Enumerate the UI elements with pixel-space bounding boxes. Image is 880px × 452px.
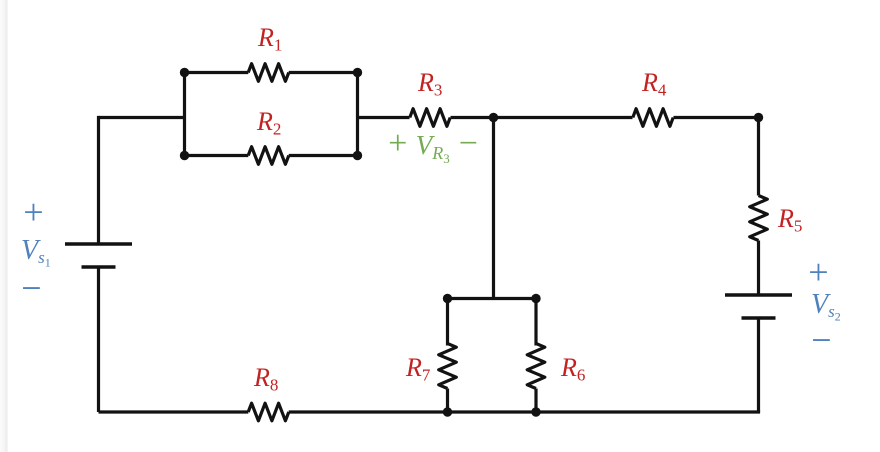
wire bottom branch right xyxy=(289,154,358,157)
resistor R4 xyxy=(633,109,673,127)
battery Vs1 positive plate xyxy=(65,242,132,246)
label R6 xyxy=(561,355,585,383)
wire bottom branch left xyxy=(185,154,249,157)
resistor R2 xyxy=(248,147,289,165)
label Vs1 minus xyxy=(19,270,43,306)
wire parallel right bar xyxy=(356,73,359,156)
wire R7-R6 top bar xyxy=(448,297,537,300)
resistor R8 xyxy=(248,403,289,421)
junction dot R6 bottom xyxy=(531,407,540,416)
resistor R7 xyxy=(439,344,457,389)
label R1 xyxy=(258,25,282,53)
wire top branch right xyxy=(289,71,358,74)
label R8 xyxy=(254,365,278,393)
wire parallel left bar xyxy=(183,73,186,156)
resistor R5 xyxy=(750,196,768,241)
junction dot parallel bottom-right xyxy=(353,151,362,160)
wire R7 upper lead xyxy=(446,299,449,346)
wire bottom rail right xyxy=(289,410,760,413)
wire left rail lower xyxy=(97,267,100,412)
wire node A to R4 xyxy=(494,116,633,119)
wire R7 lower lead xyxy=(446,389,449,413)
label Vs2 minus xyxy=(809,322,833,358)
battery Vs1 negative plate xyxy=(82,265,116,269)
label R2 xyxy=(257,109,281,137)
label R3 xyxy=(418,70,442,98)
junction dot parallel top-left xyxy=(180,68,189,77)
wire right rail lower xyxy=(757,318,760,412)
wire R6 upper lead xyxy=(534,299,537,346)
left edge shading xyxy=(0,0,8,452)
junction dot node A xyxy=(489,113,498,122)
resistor R6 xyxy=(527,344,545,389)
wire left rail upper xyxy=(97,116,100,244)
label Vs2 xyxy=(811,291,841,323)
junction dot parallel top-right xyxy=(353,68,362,77)
junction dot top-right corner xyxy=(754,113,763,122)
resistor R3 xyxy=(410,109,450,127)
wire Vs1 top to parallel block xyxy=(99,116,185,119)
wire node A down to R6-R7 bar xyxy=(492,118,495,299)
label Vs1 xyxy=(21,237,51,269)
label R7 xyxy=(406,355,430,383)
battery Vs2 positive plate xyxy=(725,293,792,297)
label Vs2 plus xyxy=(806,254,830,290)
wire R5 to Vs2 xyxy=(757,241,760,296)
wire bottom rail left xyxy=(99,410,249,413)
wire R4 to top-right corner xyxy=(674,116,759,119)
wire top branch left xyxy=(185,71,249,74)
wire top-right corner down to R5 xyxy=(757,118,760,196)
junction dot R6 top xyxy=(531,294,540,303)
label R4 xyxy=(642,70,666,98)
junction dot parallel bottom-left xyxy=(180,151,189,160)
wire parallel block to R3 xyxy=(358,116,410,119)
wire R6 lower lead xyxy=(534,389,537,413)
junction dot R7 top xyxy=(443,294,452,303)
resistor R1 xyxy=(248,64,289,82)
label R5 xyxy=(778,206,802,234)
junction dot R7 bottom xyxy=(443,407,452,416)
label Vs1 plus xyxy=(21,194,45,230)
label +VR3- voltage across R3 xyxy=(386,127,479,164)
battery Vs2 negative plate xyxy=(742,316,776,320)
wire R3 to node A xyxy=(451,116,494,119)
